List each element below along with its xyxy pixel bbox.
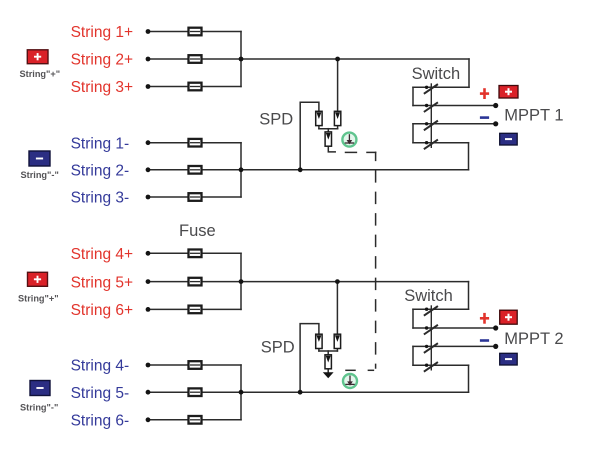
svg-text:Switch: Switch — [404, 287, 453, 305]
svg-text:Switch: Switch — [412, 65, 461, 83]
svg-text:String 2+: String 2+ — [71, 52, 133, 69]
svg-text:SPD: SPD — [261, 338, 295, 356]
svg-text:SPD: SPD — [259, 111, 293, 129]
svg-text:String"-": String"-" — [21, 170, 59, 180]
svg-text:String 1-: String 1- — [71, 135, 130, 152]
svg-text:String"+": String"+" — [20, 69, 61, 79]
svg-text:String 4+: String 4+ — [71, 246, 133, 263]
svg-text:String 1+: String 1+ — [71, 24, 133, 41]
svg-text:String 3-: String 3- — [71, 190, 130, 207]
svg-text:String 6+: String 6+ — [71, 302, 133, 319]
svg-text:MPPT 2: MPPT 2 — [504, 330, 563, 348]
svg-text:String 4-: String 4- — [71, 358, 130, 375]
svg-text:String 5-: String 5- — [71, 385, 130, 402]
svg-text:String 6-: String 6- — [71, 413, 130, 430]
svg-text:String 5+: String 5+ — [71, 274, 133, 291]
svg-text:Fuse: Fuse — [179, 222, 216, 240]
svg-text:String 2-: String 2- — [71, 163, 130, 180]
svg-text:String"+": String"+" — [18, 294, 59, 304]
svg-text:String 3+: String 3+ — [71, 79, 133, 96]
svg-text:String"-": String"-" — [20, 403, 58, 413]
svg-text:MPPT 1: MPPT 1 — [504, 106, 563, 124]
